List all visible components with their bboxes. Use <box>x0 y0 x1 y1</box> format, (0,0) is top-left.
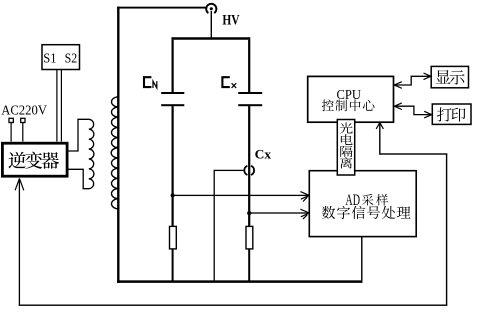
wire : CN branch below resistor <box>172 249 174 282</box>
capacitor CN plates <box>161 92 184 106</box>
wire : transformer secondary vertical (HV side) <box>117 7 119 283</box>
arrowhead up into CPU <box>376 123 383 129</box>
junction node on CN branch <box>171 193 175 197</box>
box CPU control center <box>308 76 394 122</box>
wire : CN branch lower <box>172 106 174 226</box>
svg-text:HV: HV <box>222 13 240 29</box>
wire : riser into CPU bottom <box>379 123 380 155</box>
svg-text:AC220V: AC220V <box>1 103 47 118</box>
wire : CX branch below resistor <box>248 249 250 282</box>
terminal HV circle <box>206 4 216 13</box>
label CN (blocky C with subscript N) <box>144 77 157 88</box>
bridge top thick bar <box>171 37 250 40</box>
wire : bottom feedback line <box>19 305 448 306</box>
arrowhead up into inverter <box>15 179 24 190</box>
resistor R2 (CX branch) <box>246 226 253 249</box>
wire : CPU to print with double arrowheads <box>395 106 432 114</box>
wire : AD box bottom stub to ground bus <box>361 237 362 281</box>
ground bus thick bottom line <box>117 280 362 283</box>
label 数字信号处理 <box>322 206 411 219</box>
wire : CN branch upper <box>172 40 174 92</box>
wire : HV stem down to bridge top <box>211 11 212 39</box>
sensor Cx pickup circle around CX branch <box>244 166 254 175</box>
box AD sampling / DSP <box>309 171 416 237</box>
terminal square N <box>21 118 25 122</box>
wire : CX branch middle <box>248 106 250 226</box>
wire : CPU to display with double arrowheads <box>395 76 431 85</box>
box S1 S2 switch <box>42 45 80 70</box>
wire : left feedback riser to inverter <box>19 178 20 305</box>
label 显示 <box>436 70 465 85</box>
wire : feedback horizontal into CPU drop <box>380 153 448 154</box>
box inverter 逆变器 <box>2 143 67 176</box>
capacitor CX plates <box>238 92 262 106</box>
wire : top horizontal from transformer to HV terminal <box>117 7 206 9</box>
terminal square L <box>9 118 13 122</box>
svg-text:AD: AD <box>345 191 360 209</box>
wire : AC lead L <box>11 123 12 142</box>
label 光电隔离 <box>340 123 353 169</box>
label 控制中心 <box>322 100 375 112</box>
wire : signal 2 from CX junction to AD box with arrowhead <box>249 212 308 213</box>
transformer T1 secondary coil <box>111 97 118 209</box>
wire : sensor tap vertical down to ground bus <box>214 170 215 280</box>
label 打印 <box>437 107 466 121</box>
wire : S2 lead <box>61 70 62 142</box>
box opto isolation 光电隔离 <box>337 120 354 176</box>
junction node on CX branch <box>247 211 251 215</box>
label 采样 <box>362 194 388 206</box>
wire : signal 1 from CN junction to AD box with arrowhead <box>173 195 309 196</box>
transformer T1 primary coil with connection loop to inverter <box>68 119 94 188</box>
box display 显示 <box>431 66 468 87</box>
box print 打印 <box>432 104 471 124</box>
svg-text:S1: S1 <box>43 51 56 66</box>
wire : S1 lead <box>56 70 57 142</box>
label CX top (blocky C with subscript x) <box>222 77 236 88</box>
wire : CX branch upper <box>248 40 250 92</box>
wire : right feedback riser <box>446 154 447 305</box>
svg-text:CPU: CPU <box>337 87 362 102</box>
label 逆变器 <box>9 152 60 169</box>
svg-text:Cx: Cx <box>255 148 272 162</box>
terminal HV center dot <box>210 7 213 10</box>
wire : AC lead N <box>22 123 23 142</box>
wire : sensor tap horizontal <box>214 170 245 171</box>
svg-text:S2: S2 <box>65 51 78 66</box>
resistor R1 (CN branch) <box>170 226 177 249</box>
